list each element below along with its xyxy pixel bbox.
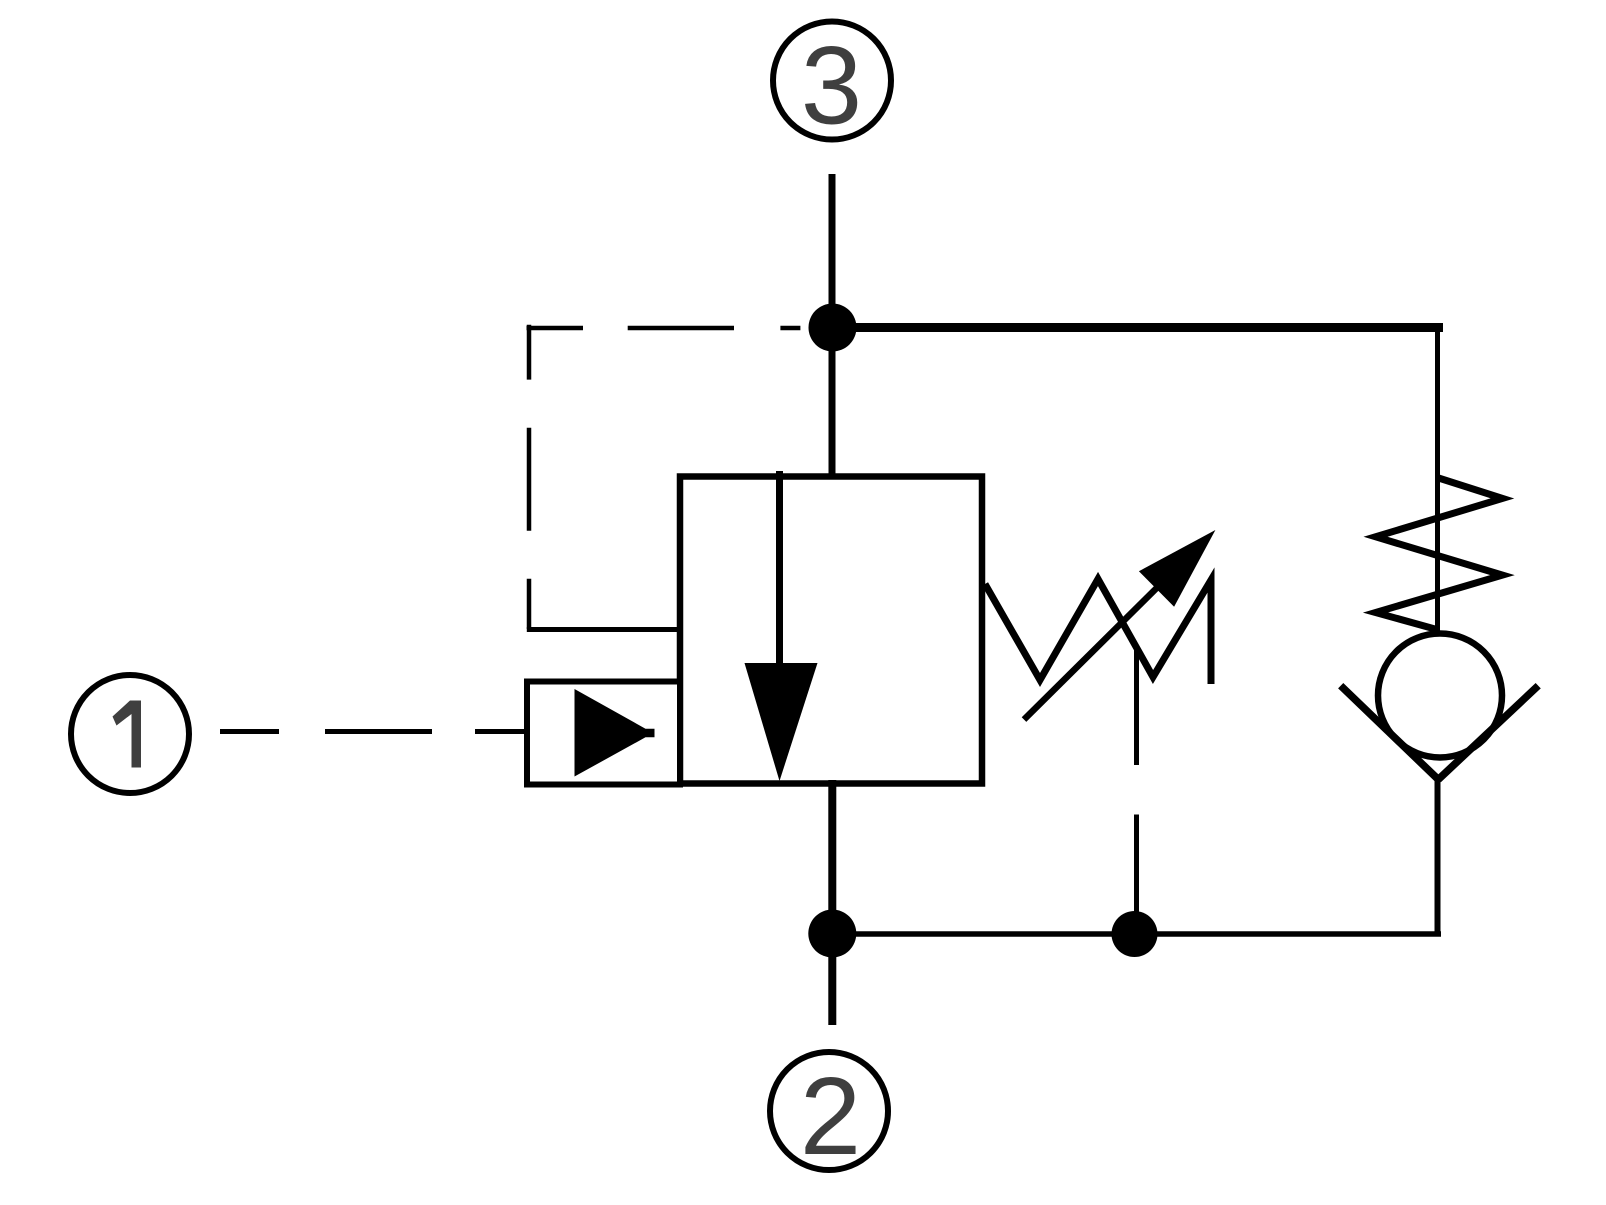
check valve ball	[1378, 634, 1502, 758]
wire: node A to check valve branch (top bar)	[830, 323, 1443, 332]
wire: check valve branch vertical axis	[1435, 323, 1440, 635]
wire: bottom bus	[832, 931, 1441, 937]
node A junction dot	[809, 304, 857, 352]
port 2	[770, 1052, 888, 1178]
pilot line: dashed rectangle top	[527, 326, 801, 331]
svg-text:3: 3	[801, 25, 862, 148]
pilot/drain dashed line to node C	[1134, 648, 1139, 916]
wire: check valve to bottom bus	[1435, 777, 1441, 936]
port 3	[773, 22, 891, 148]
pilot actuator triangle	[575, 689, 655, 777]
main valve body	[680, 477, 982, 784]
port 1	[71, 675, 189, 793]
wire: node A to main valve inlet	[829, 328, 836, 477]
pilot line: dashed rectangle left	[527, 325, 532, 629]
pilot line: port 1 to actuator (dashed)	[220, 729, 530, 734]
adjustable spring (main valve)	[985, 579, 1211, 684]
pilot line: corner into valve	[527, 627, 680, 632]
pilot actuator box	[527, 682, 680, 785]
node B junction dot	[808, 910, 856, 958]
adjustment arrow	[1024, 530, 1215, 720]
node C junction dot	[1112, 911, 1158, 957]
check valve seat	[1341, 686, 1539, 780]
wire: main valve outlet to port 2	[828, 780, 836, 1025]
svg-text:2: 2	[800, 1055, 861, 1178]
spring (check valve)	[1376, 478, 1503, 630]
wire: port 3 to node A	[829, 174, 836, 327]
main valve flow arrow	[745, 471, 818, 781]
